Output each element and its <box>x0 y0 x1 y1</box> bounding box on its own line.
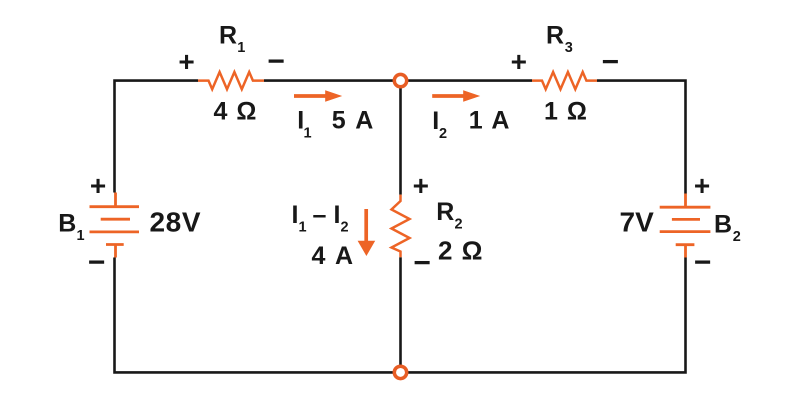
node B (bottom junction) <box>394 366 406 378</box>
label R3 <box>546 22 573 57</box>
svg-text:3: 3 <box>565 40 573 56</box>
label R2 <box>436 198 462 233</box>
svg-text:−: − <box>694 246 712 279</box>
svg-text:1: 1 <box>77 228 85 244</box>
svg-text:+: + <box>694 170 710 201</box>
current label I1 = 5 A <box>297 106 375 141</box>
svg-text:−: − <box>88 246 106 279</box>
svg-text:R: R <box>219 22 237 50</box>
svg-text:5 A: 5 A <box>332 106 375 134</box>
svg-text:+: + <box>178 46 194 77</box>
svg-text:−: − <box>413 246 431 279</box>
wire bottom-right segment (node B to corner, up to B2) <box>402 258 686 373</box>
svg-text:2: 2 <box>341 220 349 236</box>
label B2 <box>714 211 741 246</box>
label B1 <box>58 209 84 244</box>
wire left-bottom segment (B1 to bottom-left corner) <box>115 258 400 373</box>
svg-text:7V: 7V <box>620 207 655 238</box>
svg-text:+: + <box>413 170 429 201</box>
svg-text:2: 2 <box>455 217 463 233</box>
svg-text:1: 1 <box>304 126 312 142</box>
svg-text:28V: 28V <box>150 207 202 238</box>
branch current arrow I1-I2 (down) <box>358 209 376 256</box>
svg-text:1 Ω: 1 Ω <box>544 98 588 126</box>
battery B1 <box>90 193 140 258</box>
svg-text:B: B <box>714 211 732 239</box>
svg-text:R: R <box>546 22 564 50</box>
wire middle-top segment (node A down to R2) <box>399 81 402 195</box>
svg-text:B: B <box>58 209 76 237</box>
svg-text:I: I <box>334 201 341 229</box>
svg-text:2 Ω: 2 Ω <box>438 236 484 266</box>
svg-text:–: – <box>313 201 327 229</box>
wire top-middle segment (R1 to R3 through node A) <box>264 79 532 82</box>
svg-text:1: 1 <box>299 220 307 236</box>
current label I1 - I2 <box>292 201 349 236</box>
svg-text:+: + <box>511 46 527 77</box>
current arrow I2 <box>432 90 480 102</box>
wire top-right segment (R3 to corner, down to B2) <box>597 81 686 194</box>
svg-text:2: 2 <box>439 126 447 142</box>
svg-text:1 A: 1 A <box>469 107 511 135</box>
svg-text:2: 2 <box>733 229 741 245</box>
current label I2 = 1 A <box>432 107 510 143</box>
node A (top junction) <box>394 74 406 86</box>
svg-text:4 A: 4 A <box>312 242 355 270</box>
current arrow I1 <box>294 90 342 102</box>
svg-text:1: 1 <box>237 40 245 56</box>
svg-text:R: R <box>436 198 454 226</box>
battery B2 <box>660 194 711 258</box>
wire middle-bottom segment (R2 down to node B) <box>399 257 402 372</box>
resistor R2 <box>392 195 410 258</box>
label R1 <box>219 22 245 57</box>
svg-text:−: − <box>602 46 620 79</box>
svg-text:+: + <box>90 170 106 201</box>
resistor R3 <box>532 72 597 89</box>
wire top-left segment (corner to R1) <box>115 81 199 193</box>
svg-text:−: − <box>267 45 285 78</box>
svg-text:I: I <box>292 201 299 229</box>
resistor R1 <box>198 72 264 89</box>
svg-text:4 Ω: 4 Ω <box>214 98 258 126</box>
